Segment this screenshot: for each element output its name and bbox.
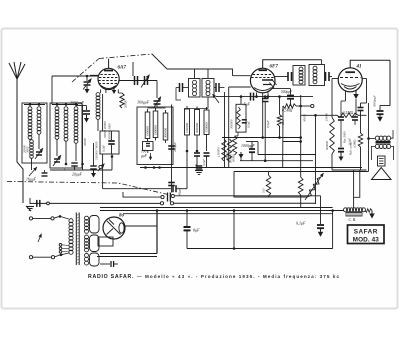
zigzag in box [237, 107, 241, 129]
capacitor IFT1 right [215, 83, 217, 92]
IFT1 primary box [189, 79, 201, 98]
svg-text:— Modello « 43 ». - Produzi: — Modello « 43 ». - Produzione 1935. - M… [137, 274, 340, 279]
wire box feed [240, 97, 242, 105]
zigzag after CB [365, 209, 372, 213]
cathode arrow 6A7 [113, 86, 115, 90]
trimmer osc top [154, 100, 161, 102]
wire IFT1 sec down [207, 97, 209, 109]
mains plug lower [29, 256, 32, 259]
coil L2 antenna secondary [38, 103, 41, 106]
wire 0.5uF cap vertical [264, 97, 266, 99]
wire plate 41 to OT [389, 60, 391, 105]
ground main [29, 198, 31, 204]
svg-text:8μF: 8μF [193, 228, 200, 233]
41 box bottom [332, 169, 367, 171]
wire avc vertical 300 [300, 95, 302, 177]
wire bus B2 [100, 210, 344, 212]
capacitor on bus [93, 143, 95, 166]
wire osc col [171, 105, 173, 193]
cathode box 6F7 [236, 104, 246, 132]
svg-text:3000μμF: 3000μμF [70, 101, 85, 105]
wire 6F7 plate [275, 76, 288, 78]
wire right edge lower [360, 111, 362, 134]
capacitor IFT2 right [325, 72, 327, 81]
node div bottoms [186, 150, 189, 153]
output transformer secondary [375, 144, 379, 148]
tube V4 80 rectifier [103, 217, 125, 239]
wire mid 188.7 [103, 188, 171, 190]
trimmer antenna series [86, 76, 88, 81]
IFT1 secondary box [202, 79, 214, 98]
tube V1 6A7 [98, 68, 119, 89]
resistor R div3 [204, 110, 209, 135]
wire IFT2 top link [267, 59, 322, 61]
svg-text:100000: 100000 [185, 123, 189, 133]
wire coil to box [97, 119, 99, 131]
phono contacts [160, 202, 163, 205]
wire IFT2 top riser [321, 60, 323, 65]
wire bus 141.5 [246, 141, 258, 143]
core bar [376, 141, 391, 144]
svg-text:30000: 30000 [83, 138, 87, 146]
zigzag resistor 6A7 pin [117, 90, 119, 94]
wire bus 137 [222, 137, 301, 139]
secondary return 2 [90, 235, 100, 252]
svg-text:410μμF: 410μμF [173, 142, 177, 152]
mains plug upper [29, 217, 32, 220]
wire left col down [224, 92, 226, 168]
wire 80 plate right [125, 225, 157, 227]
wire lower box outline [234, 172, 308, 198]
capacitor 0.1uF ground left [196, 165, 203, 167]
wire plate feed 6A7 risers [194, 69, 196, 79]
shield box oscillator [137, 107, 173, 165]
coil L6 [75, 103, 78, 106]
node osc bottom row [144, 166, 147, 169]
svg-text:500000: 500000 [325, 141, 329, 151]
wire heater lines [100, 253, 157, 255]
svg-text:300000: 300000 [195, 123, 199, 133]
svg-text:100000: 100000 [154, 125, 158, 135]
resistor R div1 [185, 109, 190, 135]
wire RF coil tops [52, 104, 78, 106]
wire pin stub [105, 90, 107, 94]
svg-text:5000μμF: 5000μμF [373, 95, 377, 107]
svg-text:SAFAR: SAFAR [354, 229, 378, 236]
OT leads [369, 138, 376, 140]
wire plate feed stepped [167, 69, 233, 76]
capacitor in box [242, 119, 247, 121]
wire box left down [102, 154, 104, 189]
wire antenna down-lead [17, 79, 23, 203]
wire pot vertical 315 [315, 115, 317, 175]
capacitor cathode 41 [338, 148, 344, 150]
41 box left edge with zigzag [331, 79, 333, 118]
wire bus 154.5 [258, 154, 316, 156]
AVC arrow IFT1 [213, 94, 220, 103]
capacitor 8uF [186, 211, 188, 227]
svg-text:300000: 300000 [164, 128, 168, 138]
secondary return 1 [90, 216, 100, 234]
svg-text:300000: 300000 [230, 119, 234, 129]
svg-text:10000: 10000 [325, 113, 329, 121]
wire 6F7 grid2 left [229, 86, 251, 88]
capacitor 1000uuF [251, 142, 253, 149]
svg-text:μμF: μμF [141, 154, 148, 158]
tube V2 6F7 [250, 68, 275, 93]
field coil C.B. [344, 208, 348, 212]
wire top cap 6F7 [263, 60, 267, 68]
capacitor padding below [42, 172, 48, 174]
svg-text:6A7: 6A7 [118, 66, 127, 71]
trimmer lower left [98, 164, 105, 172]
wire grid feed [52, 75, 98, 77]
svg-text:20000: 20000 [124, 100, 128, 108]
svg-text:50000 20000: 50000 20000 [103, 121, 107, 138]
capacitor div3 [206, 138, 208, 152]
capacitor IFT1 left [179, 83, 181, 92]
wire trimmer feed [156, 81, 158, 99]
ground 3000uuF [86, 115, 88, 118]
wire 6F7 grid left [233, 75, 251, 77]
svg-text:500μμF: 500μμF [281, 90, 293, 94]
capacitor mid 188 [172, 185, 174, 192]
trimmer osc grid [144, 76, 146, 85]
svg-text:20μμF: 20μμF [72, 173, 83, 177]
wire osc tops [148, 107, 166, 109]
wire OT feed vertical [368, 103, 370, 172]
ground after CB [371, 211, 373, 214]
wire 353 down [353, 170, 355, 208]
node C [65, 163, 68, 166]
coil osc cathode [100, 90, 102, 94]
capacitor 20uuF [75, 143, 77, 161]
wire to cap 3000 [76, 105, 87, 107]
resistor Res zigzag [279, 97, 281, 115]
svg-text:Rac 5000: Rac 5000 [343, 131, 347, 144]
wire diode out [273, 88, 291, 90]
wire coil tops [24, 104, 45, 106]
ground arrow 41 box [340, 153, 342, 157]
svg-text:C. B.: C. B. [349, 218, 357, 222]
mains arrow [38, 234, 42, 243]
secondary HT winding [85, 216, 89, 220]
wire speaker links [371, 157, 373, 160]
wire L2 bottom [38, 134, 40, 149]
capacitor small right [358, 107, 364, 109]
wire divider tops [184, 108, 208, 110]
node 48 [47, 202, 50, 205]
svg-text:41: 41 [356, 65, 362, 70]
wire 359 step down [354, 170, 360, 197]
node padder [149, 156, 152, 159]
capacitor series 360uuF [134, 76, 136, 85]
svg-text:3000: 3000 [26, 146, 30, 153]
capacitor 0.1uF out [320, 196, 322, 224]
diode plate 6F7 [262, 79, 273, 81]
41 box right edge [366, 79, 368, 104]
resistor 0.5Mohm horizontal [290, 99, 292, 106]
wire envelope right [362, 78, 366, 80]
wire bus 115.3 [301, 114, 332, 116]
svg-text:150000: 150000 [217, 147, 221, 157]
svg-text:150000: 150000 [205, 122, 209, 132]
svg-text:RADIO SAFAR.: RADIO SAFAR. [88, 274, 134, 280]
wire bus 160.7 [240, 160, 313, 162]
IFT2 primary box [293, 66, 305, 86]
ground arrow mid [240, 152, 242, 154]
resistor 150000 vertical zigzag [222, 139, 226, 161]
svg-text:515: 515 [262, 188, 266, 193]
wire gang dashed [7, 182, 168, 195]
secondary return 3 [90, 253, 100, 266]
pins 6F7 [256, 93, 258, 97]
pot diagonal zigzag [308, 177, 322, 197]
wire diagonal to plate feed [152, 54, 167, 69]
wire right vertical 332 [332, 211, 334, 249]
coil L1 antenna primary [29, 103, 32, 106]
wire bus 171.5 [234, 171, 369, 173]
zigzag right edge [358, 133, 362, 147]
gang dashed link upper [72, 59, 99, 83]
nameplate box SAFAR MOD 43 [348, 225, 385, 244]
coil L3 coupling winding [30, 140, 34, 144]
wire left avc down [282, 106, 284, 168]
cathode arrow 41 [355, 90, 357, 94]
coil L4 [56, 103, 59, 106]
svg-text:100: 100 [141, 150, 147, 154]
capacitor cathode 6A7 [111, 131, 113, 140]
capacitor padding top [168, 145, 175, 147]
zigzag 50000 below box [237, 132, 239, 136]
node below box [111, 155, 114, 158]
transformer primary [60, 216, 69, 219]
ground trimmer [86, 86, 88, 89]
wire 80 to bus [156, 211, 158, 254]
capacitor div2 [196, 138, 198, 151]
speaker cone [372, 168, 392, 180]
resistor 500000 vertical zigzag [227, 139, 231, 162]
svg-text:100000: 100000 [146, 126, 150, 136]
pin 41 right [355, 99, 357, 115]
svg-text:6F7: 6F7 [270, 65, 279, 70]
ground left section [93, 170, 95, 173]
secondary winding 2 [85, 235, 89, 239]
svg-text:510000 70000: 510000 70000 [95, 141, 99, 160]
wire bottom return [187, 248, 333, 250]
wire ant-earth line L2 [30, 202, 160, 204]
wire top cap 6A7 [108, 59, 110, 69]
wire mid vertical 234 [233, 211, 235, 249]
trimmer C ant [36, 151, 42, 153]
wire to grid circle [296, 105, 311, 107]
resistor R div2 [195, 110, 200, 136]
node grid junction [86, 75, 89, 78]
shield box RF coils [50, 103, 82, 168]
wire osc vertical [132, 62, 134, 76]
tube V3 41 [338, 68, 362, 92]
svg-text:MOD. 43: MOD. 43 [353, 236, 380, 243]
pot wiper arrow [305, 173, 324, 200]
capacitor div1 [186, 138, 188, 189]
tube 80 base [98, 237, 113, 246]
resistor R osc 3 [163, 113, 168, 140]
coil L5 [65, 103, 68, 106]
ground 0.1uF [320, 229, 322, 232]
trimmer arrow left [29, 167, 37, 176]
wire plate line 6A7 [119, 80, 157, 82]
svg-text:500000: 500000 [229, 154, 233, 164]
svg-text:16μμF: 16μμF [26, 178, 37, 182]
svg-text:360μμF: 360μμF [137, 101, 150, 105]
phono line upper [123, 192, 161, 197]
wire pot to L2 [315, 175, 317, 204]
ground 5000uuF [379, 115, 381, 117]
wire bus B1 [100, 207, 333, 209]
capacitor 3000uuF [86, 106, 88, 111]
wire bus 96.6 [216, 96, 313, 98]
IFT2 secondary box [309, 65, 325, 86]
resistor R osc 1 [145, 112, 150, 139]
svg-text:8o: 8o [119, 214, 125, 219]
primary taps [59, 244, 62, 247]
voice coil box [378, 156, 386, 166]
capacitor padding mid [168, 182, 175, 184]
pin 41 left [345, 91, 347, 101]
capacitor 500uuF [290, 89, 292, 95]
secondary winding 3 [85, 253, 89, 257]
zigzag resistor 268 to box [268, 172, 270, 176]
antenna [9, 63, 17, 79]
shield box antenna coils [22, 103, 47, 163]
svg-text:Bob. camp.: Bob. camp. [349, 141, 353, 155]
capacitor antenna series [36, 200, 38, 207]
svg-text:1000μμF: 1000μμF [241, 144, 255, 148]
caps inside 41 box [340, 115, 342, 117]
capacitor 5000uuF [379, 106, 381, 111]
wire envelope left [332, 78, 339, 80]
wire top cap 41 [350, 60, 390, 68]
wire IFT1 left loop [176, 88, 181, 101]
wire left section bottom bus [50, 169, 112, 171]
wire bus B3 [123, 213, 333, 215]
wire bus 167.5 [140, 167, 362, 169]
wire feed x52 [51, 76, 53, 105]
wire drop 258 [257, 142, 259, 155]
transformer core [75, 213, 77, 266]
wire 6A7 left pin [90, 74, 98, 76]
resistor R osc 2 [153, 111, 158, 138]
capacitor IFT2 left [287, 72, 289, 81]
cathode RC box 6A7 [100, 131, 119, 154]
wire bottom stub cap [100, 263, 110, 265]
capacitor 5uF [250, 93, 252, 101]
output transformer primary [375, 136, 379, 140]
wire coil L6 lead [82, 105, 84, 165]
trimmer C2 [56, 139, 58, 156]
zigzag 300 bottom [298, 177, 303, 195]
padder capacitor box [143, 142, 154, 151]
